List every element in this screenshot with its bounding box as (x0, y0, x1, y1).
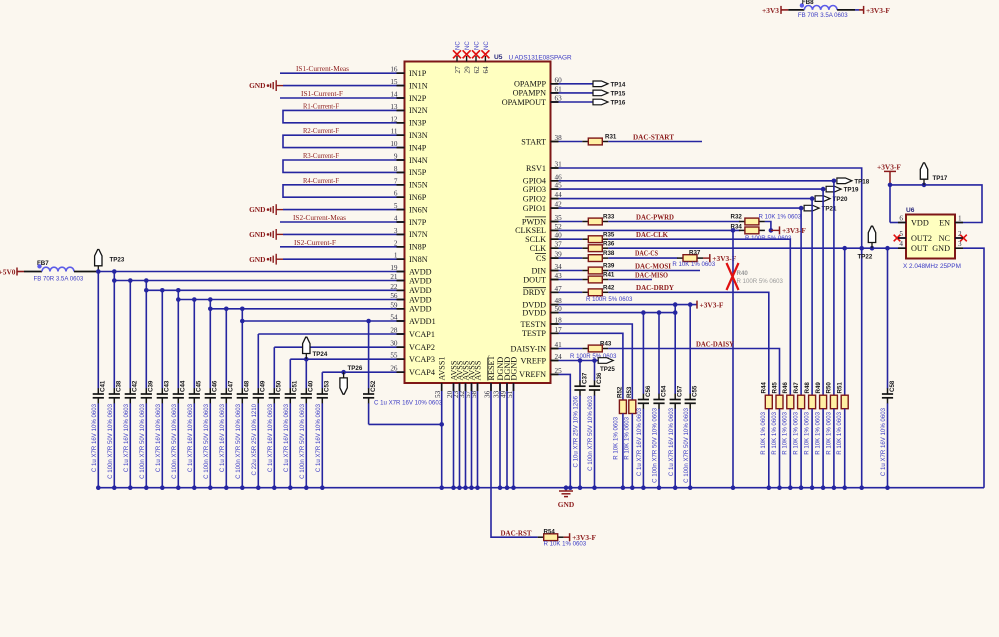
resistor R39 (582, 270, 588, 272)
svg-text:DAC-PWRD: DAC-PWRD (636, 213, 674, 221)
wire DAC-MOSI (608, 270, 700, 272)
capacitor C39 column (145, 281, 147, 389)
wire pin5 (283, 209, 405, 211)
wire pin16 (280, 72, 405, 74)
wire +5V0 to FB7 (17, 271, 24, 273)
svg-text:VREFN: VREFN (519, 370, 546, 379)
svg-text:R40: R40 (737, 270, 749, 277)
svg-text:IN5N: IN5N (409, 181, 428, 190)
svg-text:C47: C47 (228, 380, 235, 392)
wire DAC-START (608, 141, 702, 143)
resistor R34 (739, 229, 745, 231)
wire R46 to bus (789, 409, 791, 488)
resistor R52 (619, 400, 626, 414)
wire CLK to oscillator OUT (608, 247, 906, 249)
svg-text:R33: R33 (603, 213, 615, 220)
svg-text:C 10u X7R 25V 10% 1206: C 10u X7R 25V 10% 1206 (573, 395, 580, 467)
svg-text:C 100n X7R 50V 10% 0603: C 100n X7R 50V 10% 0603 (587, 395, 594, 470)
U5 top pin 29 NC stub (466, 56, 468, 62)
svg-text:TP22: TP22 (858, 254, 873, 261)
svg-text:C37: C37 (582, 372, 589, 384)
svg-text:CLKSEL: CLKSEL (515, 226, 546, 235)
wire FB8 to +3V3-F (837, 9, 855, 11)
svg-text:+3V3-F: +3V3-F (782, 226, 806, 235)
svg-text:R 10K 1% 0603: R 10K 1% 0603 (771, 411, 778, 454)
svg-text:R45: R45 (771, 382, 778, 394)
svg-text:C 1u X7R 16V 10% 0603: C 1u X7R 16V 10% 0603 (283, 403, 290, 472)
wire AVDD net pin22 (146, 289, 404, 291)
wire DAC-CLK (608, 239, 790, 395)
svg-text:C 100n X7R 50V 10% 0603: C 100n X7R 50V 10% 0603 (139, 403, 146, 478)
wire pin1 (283, 258, 405, 260)
svg-text:C43: C43 (164, 380, 171, 392)
svg-text:C54: C54 (660, 385, 667, 397)
U5 top pin 27 NC stub (456, 56, 458, 62)
svg-text:C 1u X7R 16V 10% 0603: C 1u X7R 16V 10% 0603 (374, 400, 443, 407)
power port +3V3-F (863, 6, 865, 14)
svg-text:DOUT: DOUT (523, 275, 546, 284)
svg-text:IN2N: IN2N (409, 106, 428, 115)
svg-text:DVDD: DVDD (522, 308, 546, 317)
svg-text:CS: CS (536, 254, 546, 263)
svg-text:R 10K 1% 0603: R 10K 1% 0603 (793, 411, 800, 454)
svg-text:C 1u X7R 16V 10% 0603: C 1u X7R 16V 10% 0603 (123, 403, 130, 472)
svg-text:C 100n X7R 50V 10% 0603: C 100n X7R 50V 10% 0603 (203, 403, 210, 478)
svg-text:R1-Current-F: R1-Current-F (303, 102, 339, 110)
wire loop pins 13-12 (283, 110, 405, 122)
svg-text:DRDY: DRDY (523, 288, 546, 297)
wire pin2 (280, 246, 405, 248)
svg-text:R36: R36 (603, 240, 615, 247)
svg-text:U5: U5 (494, 54, 503, 61)
svg-text:C 1u X7R 16V 10% 0603: C 1u X7R 16V 10% 0603 (155, 403, 162, 472)
svg-text:62: 62 (473, 66, 481, 74)
svg-text:DAC-CLK: DAC-CLK (636, 231, 669, 239)
svg-text:GND: GND (249, 230, 265, 239)
ground symbol GND (565, 488, 567, 491)
svg-text:R32: R32 (731, 214, 743, 221)
wire GPIO column x=833.9 (833, 181, 835, 395)
wire RSV1 pin31 (559, 168, 862, 488)
wire R40 column (CLKSEL pulldown) (732, 230, 734, 487)
svg-text:TESTP: TESTP (522, 329, 547, 338)
junction TP24 (304, 357, 309, 362)
svg-text:DAC-MISO: DAC-MISO (635, 271, 669, 279)
junction (176, 297, 181, 302)
svg-text:R35: R35 (603, 231, 615, 238)
test point TP19 (826, 186, 841, 192)
wire +3V3-F down to VDD (889, 185, 891, 223)
svg-text:IS1-Current-F: IS1-Current-F (301, 90, 343, 98)
U6 pin stubs overdraw (898, 222, 906, 224)
wire AVSS pin 57 to ground bus (471, 383, 473, 488)
wire R52 to bus (622, 414, 624, 488)
svg-text:R54: R54 (544, 528, 556, 535)
resistor R50 (830, 395, 837, 409)
U5 pin stubs right overdraw (551, 83, 559, 85)
resistor R31 (582, 141, 588, 143)
wire loop pins 7-6 (283, 185, 405, 197)
oscillator U6 body (906, 215, 955, 259)
svg-text:NC: NC (455, 41, 462, 50)
resistor R43 (582, 348, 588, 350)
junction (240, 319, 245, 324)
svg-text:VCAP2: VCAP2 (409, 343, 435, 352)
svg-text:DAC-DAISY: DAC-DAISY (696, 341, 734, 349)
resistor R51 (841, 395, 848, 409)
svg-text:C 1u X7R 16V 10% 0603: C 1u X7R 16V 10% 0603 (636, 407, 643, 476)
junction (578, 358, 583, 363)
svg-text:OUT2: OUT2 (911, 234, 932, 243)
U5 pin stubs bottom overdraw (441, 383, 443, 391)
svg-text:AVDD: AVDD (409, 276, 432, 285)
wire R48 to bus (811, 409, 813, 488)
resistor R47 (798, 395, 805, 409)
svg-text:GND: GND (249, 81, 265, 90)
svg-text:VDD: VDD (911, 219, 929, 228)
wire DVDD pin50 (559, 312, 676, 314)
svg-text:VCAP3: VCAP3 (409, 355, 435, 364)
test point TP22 (870, 246, 875, 251)
wire TESTN pin18 (559, 324, 633, 400)
svg-text:C40: C40 (308, 380, 315, 392)
svg-text:R43: R43 (600, 340, 612, 347)
wire AVSS pin 20 to ground bus (453, 383, 455, 488)
svg-text:TP24: TP24 (313, 351, 328, 358)
svg-text:DAC-CS: DAC-CS (635, 250, 658, 258)
svg-text:GND: GND (249, 255, 265, 264)
resistor R41 (582, 279, 588, 281)
svg-text:VREFP: VREFP (521, 356, 547, 365)
junction TP17 branch (888, 183, 893, 188)
svg-text:C48: C48 (244, 380, 251, 392)
svg-text:DAC-MOSI: DAC-MOSI (635, 262, 671, 270)
svg-text:R47: R47 (793, 382, 800, 394)
wire CLK pin37 (559, 247, 583, 249)
junction (673, 302, 678, 307)
capacitor C57 column (674, 305, 676, 394)
wire SCLK pin40 (559, 238, 583, 240)
svg-text:R 10K 1% 0603: R 10K 1% 0603 (825, 411, 832, 454)
svg-text:R 10K 1% 0603: R 10K 1% 0603 (672, 261, 715, 268)
wire GPIO row TP21 (559, 207, 802, 209)
resistor R49 (820, 395, 827, 409)
svg-text:NC: NC (464, 41, 471, 50)
wire AVDD net pin21 (114, 280, 404, 282)
wire R32 to R34 corner (765, 222, 771, 231)
resistor R38 (582, 257, 588, 259)
svg-text:C 1u X7R 16V 10% 0603: C 1u X7R 16V 10% 0603 (219, 403, 226, 472)
wire pin14 (280, 97, 405, 99)
wire TESTP pin17 (559, 333, 623, 400)
svg-text:R50: R50 (826, 382, 833, 394)
svg-text:R 10K 1% 0603: R 10K 1% 0603 (782, 411, 789, 454)
wire PWDN pin35 (559, 221, 583, 223)
svg-text:R42: R42 (603, 284, 615, 291)
svg-text:TP17: TP17 (933, 175, 948, 182)
resistor R48 (809, 395, 816, 409)
svg-text:C 100n X7R 50V 10% 0603: C 100n X7R 50V 10% 0603 (683, 407, 690, 482)
svg-text:GPIO2: GPIO2 (523, 194, 546, 203)
svg-text:TP20: TP20 (833, 196, 848, 203)
junction (112, 278, 117, 283)
svg-text:+3V3-F: +3V3-F (877, 162, 901, 171)
svg-text:C51: C51 (292, 380, 299, 392)
svg-text:R37: R37 (689, 250, 701, 257)
wire OPAMP row to TP14 (551, 83, 594, 85)
svg-text:C41: C41 (100, 380, 107, 392)
resistor R53 (629, 400, 636, 414)
svg-text:R39: R39 (603, 263, 615, 270)
svg-text:IN6N: IN6N (409, 205, 428, 214)
wire AVSS pin 32 to ground bus (465, 383, 467, 488)
svg-text:C 100n X7R 50V 10% 0603: C 100n X7R 50V 10% 0603 (235, 403, 242, 478)
svg-text:DIN: DIN (531, 266, 546, 275)
svg-text:C53: C53 (324, 380, 331, 392)
svg-text:+3V3-F: +3V3-F (700, 300, 724, 309)
svg-text:C39: C39 (148, 380, 155, 392)
svg-text:C50: C50 (276, 380, 283, 392)
svg-text:TP15: TP15 (611, 91, 626, 98)
wire VCAP1 net pin28 (258, 333, 404, 335)
test point TP25 (598, 358, 613, 364)
svg-text:TP14: TP14 (611, 81, 626, 88)
svg-text:FB 70R 3.5A 0603: FB 70R 3.5A 0603 (798, 12, 848, 19)
svg-text:EN: EN (939, 219, 950, 228)
wire R51 to bus (844, 409, 846, 488)
svg-text:29: 29 (463, 66, 471, 74)
svg-text:+3V3-F: +3V3-F (572, 533, 596, 542)
svg-text:27: 27 (454, 66, 462, 74)
wire loop pins 9-8 (283, 160, 405, 172)
wire pin3 (283, 233, 405, 235)
test point TP20 (815, 196, 830, 202)
junction (96, 269, 101, 274)
svg-text:R41: R41 (603, 272, 615, 279)
U5 pin stubs left overdraw (397, 72, 405, 74)
svg-text:DAC-START: DAC-START (633, 133, 674, 141)
capacitor C37 column (579, 361, 581, 381)
wire DAC-CS (608, 257, 677, 259)
svg-text:5: 5 (899, 230, 903, 238)
svg-text:C58: C58 (889, 380, 896, 392)
wire GPIO column x=823.1 (822, 189, 824, 395)
junction (859, 246, 864, 251)
svg-text:TP18: TP18 (854, 178, 869, 185)
svg-text:IN7P: IN7P (409, 218, 427, 227)
svg-text:R49: R49 (815, 382, 822, 394)
svg-text:+3V3: +3V3 (762, 6, 779, 15)
svg-text:GND: GND (249, 205, 265, 214)
svg-text:R48: R48 (804, 382, 811, 394)
svg-text:GPIO3: GPIO3 (523, 185, 546, 194)
capacitor C53 column (321, 372, 323, 388)
svg-text:3: 3 (958, 240, 962, 248)
test point TP26 (343, 372, 345, 378)
svg-text:U6: U6 (906, 207, 915, 214)
svg-text:TP23: TP23 (110, 257, 125, 264)
no-connect X NC (960, 235, 967, 242)
svg-text:R3-Current-F: R3-Current-F (303, 152, 339, 160)
wire AVSS1 pin 53 to ground bus (441, 383, 443, 488)
svg-text:C 1u X7R 16V 10% 0603: C 1u X7R 16V 10% 0603 (315, 403, 322, 472)
wire VREFP pin24 (559, 360, 599, 362)
svg-text:IN3P: IN3P (409, 119, 427, 128)
svg-text:R 100R 5% 0603: R 100R 5% 0603 (586, 296, 633, 303)
test point TP24 (305, 354, 307, 360)
wire +3V3 to FB8 (788, 9, 804, 11)
svg-text:R46: R46 (782, 382, 789, 394)
svg-text:DAC-DRDY: DAC-DRDY (636, 284, 674, 292)
svg-text:R52: R52 (617, 386, 624, 398)
svg-text:AVSS: AVSS (473, 360, 482, 380)
wire R49 to bus (822, 409, 824, 488)
svg-text:C 100n X7R 50V 10% 0603: C 100n X7R 50V 10% 0603 (299, 403, 306, 478)
junction R51 (842, 246, 847, 251)
wire R53 to bus (631, 414, 633, 488)
resistor R33 (582, 221, 588, 223)
svg-text:C 100n X7R 50V 10% 0603: C 100n X7R 50V 10% 0603 (171, 403, 178, 478)
capacitor C56 column (642, 313, 644, 394)
wire R51 column (844, 248, 846, 395)
power port +3V3-F at R37 (703, 257, 710, 259)
svg-text:R 10K 1% 0603: R 10K 1% 0603 (804, 411, 811, 454)
svg-text:C 1u X7R 16V 10% 0603: C 1u X7R 16V 10% 0603 (668, 407, 675, 476)
svg-text:R 10K 1% 0603: R 10K 1% 0603 (759, 213, 802, 220)
capacitor C58 column from CLK row (887, 248, 889, 388)
capacitor C46 column (209, 300, 211, 389)
svg-text:NC: NC (474, 41, 481, 50)
svg-text:IS2-Current-Meas: IS2-Current-Meas (293, 214, 346, 222)
svg-text:C46: C46 (212, 380, 219, 392)
wire R44 to bus (768, 409, 770, 488)
wire DGND pin 51 to ground bus (513, 383, 515, 488)
wire DRDY pin47 (559, 291, 583, 293)
wire DVDD pin48 (559, 304, 698, 306)
capacitor C43 column (161, 290, 163, 388)
svg-text:R 100R 5% 0603: R 100R 5% 0603 (737, 278, 784, 285)
svg-text:TP26: TP26 (348, 365, 363, 372)
wire GPIO row TP18 (559, 180, 834, 182)
capacitor C42 column (129, 281, 131, 389)
resistor R44 (765, 395, 772, 409)
svg-text:R2-Current-F: R2-Current-F (303, 127, 339, 135)
svg-text:C 22u X5R 25V 10% 1210: C 22u X5R 25V 10% 1210 (251, 403, 258, 475)
resistor R42 (582, 291, 588, 293)
test point TP23 (97, 266, 99, 272)
capacitor C52 (368, 321, 370, 389)
svg-text:OUT: OUT (911, 244, 928, 253)
svg-text:C57: C57 (677, 385, 684, 397)
wire FB7 to TP23 junction (74, 271, 98, 273)
svg-text:R44: R44 (761, 382, 768, 394)
resistor R37 (677, 257, 683, 259)
resistor R46 (787, 395, 794, 409)
svg-text:VCAP4: VCAP4 (409, 368, 435, 377)
wire pin15 (283, 85, 405, 87)
junction (144, 288, 149, 293)
test point TP18 (837, 178, 852, 184)
svg-text:IN3N: IN3N (409, 131, 428, 140)
capacitor C49 column (257, 334, 259, 389)
svg-text:IN2P: IN2P (409, 94, 427, 103)
svg-text:C45: C45 (196, 380, 203, 392)
svg-text:1: 1 (958, 215, 962, 223)
svg-text:C36: C36 (596, 372, 603, 384)
svg-text:R4-Current-F: R4-Current-F (303, 177, 339, 185)
wire GPIO row TP19 (559, 188, 824, 190)
capacitor C38 column (113, 272, 115, 389)
capacitor C44 column (177, 290, 179, 388)
svg-text:OPAMPP: OPAMPP (514, 80, 546, 89)
wire R47 to bus (800, 409, 802, 488)
svg-text:PWDN: PWDN (522, 217, 546, 226)
svg-text:FB8: FB8 (802, 0, 814, 6)
svg-text:IN7N: IN7N (409, 230, 428, 239)
wire AVDD net pin19 (98, 271, 404, 273)
resistor R54 (538, 536, 544, 538)
capacitor C45 column (193, 300, 195, 389)
svg-text:R38: R38 (603, 250, 615, 257)
wire pin4 (280, 221, 405, 223)
svg-text:C 100n X7R 50V 10% 0603: C 100n X7R 50V 10% 0603 (652, 407, 659, 482)
svg-text:AVDD: AVDD (409, 295, 432, 304)
deleted resistor R40 cross (727, 263, 739, 290)
svg-text:IN4P: IN4P (409, 143, 427, 152)
test point TP14 (593, 81, 608, 87)
svg-text:IN8N: IN8N (409, 255, 428, 264)
svg-text:C42: C42 (132, 380, 139, 392)
svg-text:C 1u X7R 16V 10% 0603: C 1u X7R 16V 10% 0603 (91, 403, 98, 472)
power port +3V3-F at R34 (771, 229, 780, 231)
op IC U5 ADS131E08 body (405, 62, 551, 384)
svg-text:TP25: TP25 (600, 366, 615, 373)
svg-text:R 10K 1% 0603: R 10K 1% 0603 (613, 416, 620, 459)
svg-text:TP19: TP19 (844, 187, 859, 194)
test point TP15 (593, 90, 608, 96)
svg-text:6: 6 (899, 215, 903, 223)
svg-text:U ADS131E08SPAGR: U ADS131E08SPAGR (509, 55, 572, 62)
wire GPIO row TP20 (559, 198, 813, 200)
capacitor C47 column (225, 309, 227, 389)
test point TP21 (804, 205, 819, 211)
svg-text:OPAMPOUT: OPAMPOUT (502, 98, 546, 107)
resistor R36 (582, 247, 588, 249)
svg-text:+3V3-F: +3V3-F (866, 6, 890, 15)
wire CS pin39 (559, 257, 583, 259)
power port +3V3-F at R54 (564, 536, 570, 538)
svg-text:C56: C56 (645, 385, 652, 397)
wire GPIO column x=801.1 (800, 208, 802, 395)
svg-text:IN4N: IN4N (409, 156, 428, 165)
svg-text:TP16: TP16 (611, 100, 626, 107)
capacitor C40 column (305, 359, 307, 388)
wire DAISY-IN pin41 (559, 348, 583, 350)
wire top to EN (890, 185, 982, 223)
svg-text:R 10K 1% 0603: R 10K 1% 0603 (624, 416, 631, 459)
wire U6 GND to bus (963, 248, 984, 488)
svg-text:SCLK: SCLK (525, 235, 546, 244)
wire AVSS pin 58 to ground bus (477, 383, 479, 488)
svg-text:IN8P: IN8P (409, 243, 427, 252)
wire DAC-PWRD (608, 221, 740, 223)
svg-text:VCAP1: VCAP1 (409, 330, 435, 339)
svg-text:GPIO1: GPIO1 (523, 204, 546, 213)
svg-text:AVDD: AVDD (409, 267, 432, 276)
U6 pin stubs (898, 222, 906, 224)
wire loop pins 11-10 (283, 135, 405, 147)
wire AVDD net pin59 (210, 308, 404, 310)
